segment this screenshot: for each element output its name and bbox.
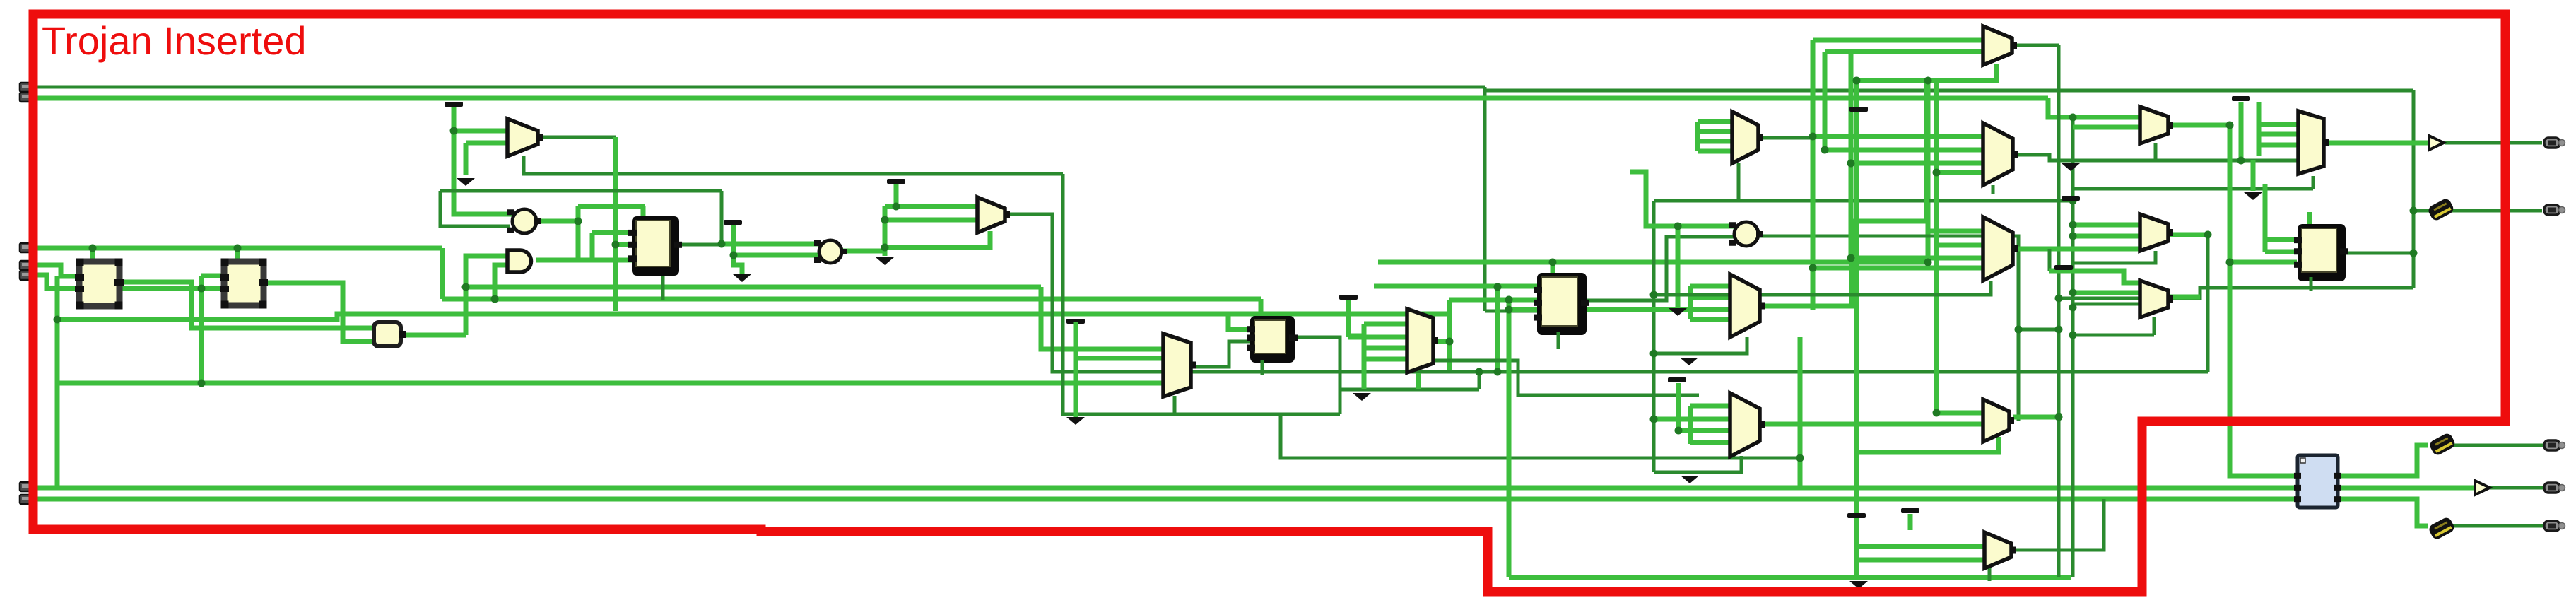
wire M9 in3 <box>1851 161 1985 166</box>
wire M12 out <box>2166 233 2208 237</box>
wire M7 in2 <box>1698 129 1732 134</box>
input pin I2 <box>20 93 32 102</box>
wire to U9 in2 <box>1449 298 1539 303</box>
wire x2582 vertical <box>1823 52 1828 150</box>
output buffer B2 <box>2475 481 2490 495</box>
wire line3 drop to U8 in1 <box>1228 314 1254 329</box>
wire long vertical x2101 <box>1483 90 1487 311</box>
wire M2 out long y526 <box>1006 214 2208 372</box>
register U1 <box>75 259 124 310</box>
wire y648 long <box>1281 414 1800 458</box>
wire M1 out <box>539 136 616 139</box>
wire x1930 vertical <box>1362 324 1367 389</box>
wire M4 in4 <box>1364 357 1407 362</box>
wire x2340 drop <box>1652 201 1656 472</box>
wire to C2 in1 <box>722 242 818 247</box>
wire M10 in4 <box>1813 266 1983 271</box>
wire C2 out <box>841 249 885 254</box>
wire M5 out up <box>1765 81 1927 306</box>
input pin I1 <box>20 83 32 92</box>
wire x3155 vertical to U18 <box>2230 125 2298 476</box>
wire line2 drop to U8 <box>1259 299 1264 316</box>
wire M12 in1 <box>2073 223 2143 228</box>
wire bundle line2 <box>442 297 1261 302</box>
wire M14 out <box>2013 415 2059 420</box>
wire M4 in3 <box>1364 346 1407 351</box>
wire gnd1 to C1 <box>454 107 512 214</box>
wire gnd7 stub <box>1908 514 1913 530</box>
wire gnd4 stub <box>894 184 899 206</box>
inverter C2 <box>814 240 847 263</box>
wire M11 in2 <box>2073 125 2140 130</box>
wire M6 in3 from gnd <box>1678 383 1731 430</box>
wire U9 out to C3 <box>1586 237 1735 300</box>
mux M16 <box>2298 111 2329 174</box>
wire M4 out <box>1434 339 1449 344</box>
ram block U18 <box>2294 455 2341 508</box>
ground arrow g7 <box>1669 308 1687 316</box>
wire bottom bus A <box>30 486 2300 491</box>
wire y466 link <box>2018 328 2059 332</box>
splitter S1 <box>2427 197 2455 222</box>
wire U16 out <box>2346 252 2413 255</box>
flip-flop U8 <box>1247 316 1298 363</box>
input pin I5 <box>20 271 32 280</box>
wire U8 out down <box>1295 337 1340 414</box>
ground arrow g2 <box>457 178 475 186</box>
wire IN2 to mux M11 <box>2048 98 2143 117</box>
wire gnd6 elbow <box>1348 334 1364 339</box>
wire C3 out <box>1759 236 2018 421</box>
wire M4 in2 <box>1348 335 1407 340</box>
wire x2119 vertical <box>1495 287 1500 372</box>
wire M16 in2 <box>2259 132 2297 137</box>
output pin O2 <box>2544 205 2565 215</box>
wire M5 in2 <box>1690 295 1730 300</box>
output pin O4 <box>2544 483 2565 493</box>
wire U18 out2 <box>2338 486 2475 491</box>
wire U4 bottom stub <box>661 276 665 300</box>
wire x2740 vertical <box>1934 81 1939 413</box>
ground bar g14 <box>2054 265 2073 270</box>
output pin O3 <box>2544 440 2565 450</box>
ground arrow g4b <box>876 257 894 265</box>
wire net IN2 bus <box>30 96 2048 101</box>
ground bar g12 <box>1668 377 1686 382</box>
ground bar g13 <box>2232 96 2250 101</box>
wire U16 bottom stub <box>2310 277 2313 291</box>
wire to M3 in2 <box>1076 356 1163 361</box>
wire U2 out to U3 <box>266 283 374 341</box>
flip-flop U4 <box>628 216 682 276</box>
wire U3 out <box>401 333 466 338</box>
wire to output O2 <box>2413 209 2542 213</box>
wire M9 in2 <box>1825 148 1985 153</box>
mux M9 <box>1983 123 2018 185</box>
input pin I6 <box>20 482 32 491</box>
output buffer B1 <box>2429 136 2444 150</box>
wire M9 select stub <box>1992 185 1995 194</box>
mux M13 <box>2140 281 2173 317</box>
wire to U2 in1 <box>201 274 224 278</box>
inverter C3 <box>1729 222 1763 246</box>
wire U16 feed v <box>2263 184 2268 252</box>
wire U18 out3 <box>2338 499 2428 526</box>
wire M6 in1 <box>1690 404 1731 409</box>
ground bar g11 <box>1901 508 1919 513</box>
wire U16 in1 <box>2265 237 2299 242</box>
wire M6 out to M14 in2 <box>1761 422 1984 427</box>
wire branch x285 <box>199 276 204 383</box>
wire to U2 in2 <box>201 286 224 291</box>
mux M2 <box>977 197 1010 233</box>
wire net IN3 <box>30 246 442 251</box>
wire C1 out <box>536 219 578 224</box>
wire M15 in1 <box>1857 544 1984 549</box>
wire gnd stub x3188 <box>2251 160 2256 191</box>
wire gnd3 stem <box>734 225 742 274</box>
wire to output O1 <box>2445 141 2542 145</box>
wire M14 in1 <box>1936 411 1984 416</box>
wire M7 in4 <box>1698 149 1732 154</box>
wire M5 select <box>1650 337 1747 353</box>
wire M6 in2 <box>1654 417 1731 422</box>
register U2 <box>220 259 268 309</box>
mux M10 <box>1983 217 2018 281</box>
wire to U1 top <box>90 248 95 263</box>
wire M5 in1 <box>1690 284 1730 289</box>
wire to U4 in1 <box>592 230 632 235</box>
ground bar g6 <box>1339 295 1358 300</box>
wire M13 select feed <box>2073 334 2154 337</box>
ground bar g1 <box>445 102 463 107</box>
wire x2051 vertical <box>1447 300 1452 372</box>
flip-flop U9 <box>1534 273 1589 335</box>
mux M1 <box>507 119 543 156</box>
wire net IN4 to U1 <box>30 265 79 276</box>
ground bar g3 <box>724 220 742 225</box>
input pin I7 <box>20 495 32 504</box>
wire G1 out to U4 in3 <box>536 258 632 263</box>
wire M16 in1 <box>2259 122 2297 127</box>
ground bar g4 <box>887 179 905 184</box>
wire x2728 up <box>1926 81 1931 262</box>
wire to U4 in2 <box>616 242 632 247</box>
wire M16 in3 <box>2259 143 2297 148</box>
ground arrow g6 <box>1353 393 1371 401</box>
ground bar g10 <box>1847 513 1866 518</box>
wire M6 in4 <box>1690 440 1731 445</box>
wire x2547 vertical <box>1798 337 1803 488</box>
flip-flop U16 <box>2294 224 2348 281</box>
wire M5 in4 <box>1690 317 1730 322</box>
wire U4 out <box>677 243 722 247</box>
wire U3 out up to G1 <box>466 256 507 335</box>
wire y292 to M2 <box>885 204 976 209</box>
wire x838 branch <box>590 233 595 260</box>
wire U8 bottom stub <box>1261 360 1264 375</box>
wire M6 select <box>1654 456 1741 472</box>
wire y551 dark <box>1340 388 1479 392</box>
ground g5 <box>1066 319 1085 425</box>
wire gnd2 stub <box>464 143 469 175</box>
splitter S2 <box>2428 432 2457 457</box>
wire long bus y542 <box>57 381 1163 386</box>
mux M14 <box>1983 399 2014 442</box>
wire M2 in2 feed <box>885 218 976 223</box>
wire M9 in4 <box>1936 170 1985 175</box>
wire net IN1 to right <box>1485 87 2413 90</box>
wire M2 select <box>888 231 990 247</box>
wire to C2 in2 <box>734 253 818 258</box>
wire x2627 long vertical <box>1854 81 1859 578</box>
wire U1 out to U3 <box>119 282 374 328</box>
svg-text:Trojan Inserted: Trojan Inserted <box>42 18 307 63</box>
wire bundle line1 <box>466 285 1041 290</box>
inverter C1 <box>507 209 541 233</box>
wire M16 out <box>2327 141 2429 146</box>
wire x3124 drop <box>2206 235 2210 372</box>
wire M8 select <box>1857 64 1996 81</box>
wire M11 out <box>2168 123 2230 128</box>
wire M15 select stub <box>1988 568 1992 581</box>
wire line1 drop to M3 <box>1041 287 1163 349</box>
wire gnd stem x2374 <box>1676 226 1681 307</box>
mux M8 <box>1983 26 2017 65</box>
mux M6 <box>1730 393 1765 457</box>
wire gnd5 stem <box>1074 324 1078 417</box>
wire to output O3 <box>2451 444 2544 447</box>
wire to U2 top <box>235 248 240 263</box>
splitter S3 <box>2428 516 2456 541</box>
input pin I3 <box>20 243 32 252</box>
and gate G1 <box>507 250 531 272</box>
wire U9 bottom stub <box>1557 332 1560 349</box>
wire x2135 vertical <box>1507 299 1512 577</box>
ground bar g8 <box>1849 107 1868 112</box>
ground bar g9b <box>2062 196 2080 201</box>
output pin O1 <box>2544 138 2565 148</box>
wire M14 select <box>1859 437 1999 452</box>
ground arrow g11b <box>1849 581 1868 589</box>
wire to U16 in3 <box>2230 260 2297 265</box>
wire M7 out <box>1758 136 1813 140</box>
wire M13 out <box>2168 295 2200 300</box>
wire M5 feed v <box>1688 286 1693 319</box>
wire M5 in3 long <box>1509 307 1730 312</box>
wire M8 in1 <box>1813 38 1983 43</box>
wire M11 select stub <box>2154 143 2158 160</box>
wire M4 in1 <box>1364 322 1407 327</box>
ground arrow g12b <box>1681 476 1699 483</box>
mux M12 <box>2140 214 2173 251</box>
wire to C3 in1 <box>1630 172 1735 226</box>
wire y267 dark <box>2073 187 2313 191</box>
wire x2565 vertical <box>1811 40 1816 310</box>
mux M11 <box>2140 107 2173 143</box>
wire select drop y586 <box>1063 174 1340 414</box>
wire M10 in1 <box>1928 229 1983 234</box>
wire M7 feed v <box>1695 122 1700 151</box>
wire M7 select stub <box>1737 163 1741 201</box>
wire x818 up <box>576 206 581 260</box>
wire gnd6 stem <box>1346 300 1351 337</box>
ground arrow g13b <box>2244 192 2262 200</box>
wire branch x81 down <box>55 276 60 488</box>
wire to M1 in1 <box>454 129 507 134</box>
wire M1 out drop <box>613 137 618 311</box>
wire M15 in2 <box>1857 558 1984 563</box>
wire U9 top pin <box>1551 262 1555 274</box>
wire M3 out to U8 <box>1192 341 1254 367</box>
wire mid segment y408 <box>122 286 224 291</box>
wire M13 in2 <box>2073 291 2140 295</box>
wire net IN5 to U1 <box>30 275 79 288</box>
wire x2913 vertical <box>2057 45 2061 577</box>
wire M10 in2 <box>1936 243 1983 248</box>
wire M15 out <box>2011 499 2104 550</box>
wire y407 dark <box>2059 288 2413 298</box>
mux M7 <box>1732 112 1763 163</box>
mux M5 <box>1730 274 1765 337</box>
ground arrow g9 <box>2062 163 2080 171</box>
wire M10 select long <box>1654 281 1991 295</box>
wire bundle line3 <box>57 314 1449 319</box>
wire M9 out to M16 in4 <box>2013 155 2298 160</box>
wire vertical x3415 <box>2412 90 2416 288</box>
wire M10 in3 <box>1851 256 1983 261</box>
mux M15 <box>1984 532 2016 568</box>
wire x2619 vertical <box>1849 52 1854 258</box>
wire to output O4 <box>2490 486 2544 490</box>
wire bottom bus B <box>30 497 2300 502</box>
wire M12 in2 <box>2073 234 2143 239</box>
ground arrow g12c <box>1680 358 1698 365</box>
wire M13 select stub <box>2153 317 2156 335</box>
wire M12 select <box>2073 251 2156 263</box>
input pin I4 <box>20 261 32 270</box>
wire y817 bus <box>1509 575 2071 580</box>
wire M1 select long <box>524 156 1063 174</box>
wire x1021 drop <box>720 191 724 245</box>
wire x2933 vertical <box>2071 117 2075 577</box>
wire M7 in1 <box>1698 119 1732 124</box>
mux M3 <box>1163 334 1196 397</box>
mux M4 <box>1407 309 1438 373</box>
wire U18 out1 <box>2338 445 2428 476</box>
wire y284 dark <box>1654 199 2073 203</box>
wire to M13 in1 <box>2049 271 2140 283</box>
wire U16 in2 <box>2265 250 2299 254</box>
wire U4 top feed <box>578 204 645 209</box>
wire line2 up to G1 in2 <box>495 265 507 299</box>
wire M16 feed v <box>2257 102 2262 156</box>
wire net IN1 top bus <box>30 86 1485 89</box>
wire to M1 in2 <box>466 141 507 146</box>
buffer U3 <box>374 322 406 346</box>
wire M3 select stub <box>1173 396 1177 414</box>
wire to U9 in3 <box>1485 310 1539 313</box>
output pin O5 <box>2544 521 2565 531</box>
wire y510 dark path <box>1434 360 1699 395</box>
wire to C1 lower <box>440 191 510 226</box>
wire y270 dark <box>440 189 722 193</box>
wire U4 top pin <box>641 206 646 218</box>
wire M8 out <box>2012 44 2059 47</box>
wire gnd4 stem <box>883 206 888 256</box>
wire gnd13 stem <box>2239 102 2244 160</box>
wire M7 in3 <box>1698 139 1732 144</box>
wire M13 in3 <box>2073 303 2140 306</box>
wire M10 out to M12 <box>2013 247 2143 252</box>
wire M6 feed v <box>1688 406 1693 444</box>
wire to U9 in1 <box>1374 284 1539 289</box>
ground arrow g3b <box>733 274 751 282</box>
wire M16 select <box>2312 176 2315 189</box>
wire M4 select stub <box>1416 373 1421 389</box>
wire y371 bus <box>1378 260 1928 265</box>
wire x2900 drop <box>2048 249 2052 271</box>
wire U16 top pin <box>2307 212 2312 225</box>
wire IN3 drop <box>440 248 445 299</box>
wire M9 in1 <box>1813 134 1985 139</box>
wire to output O5 <box>2451 524 2544 528</box>
wire y551 riser <box>1478 372 1481 389</box>
wire M8 in2 <box>1825 49 1983 54</box>
